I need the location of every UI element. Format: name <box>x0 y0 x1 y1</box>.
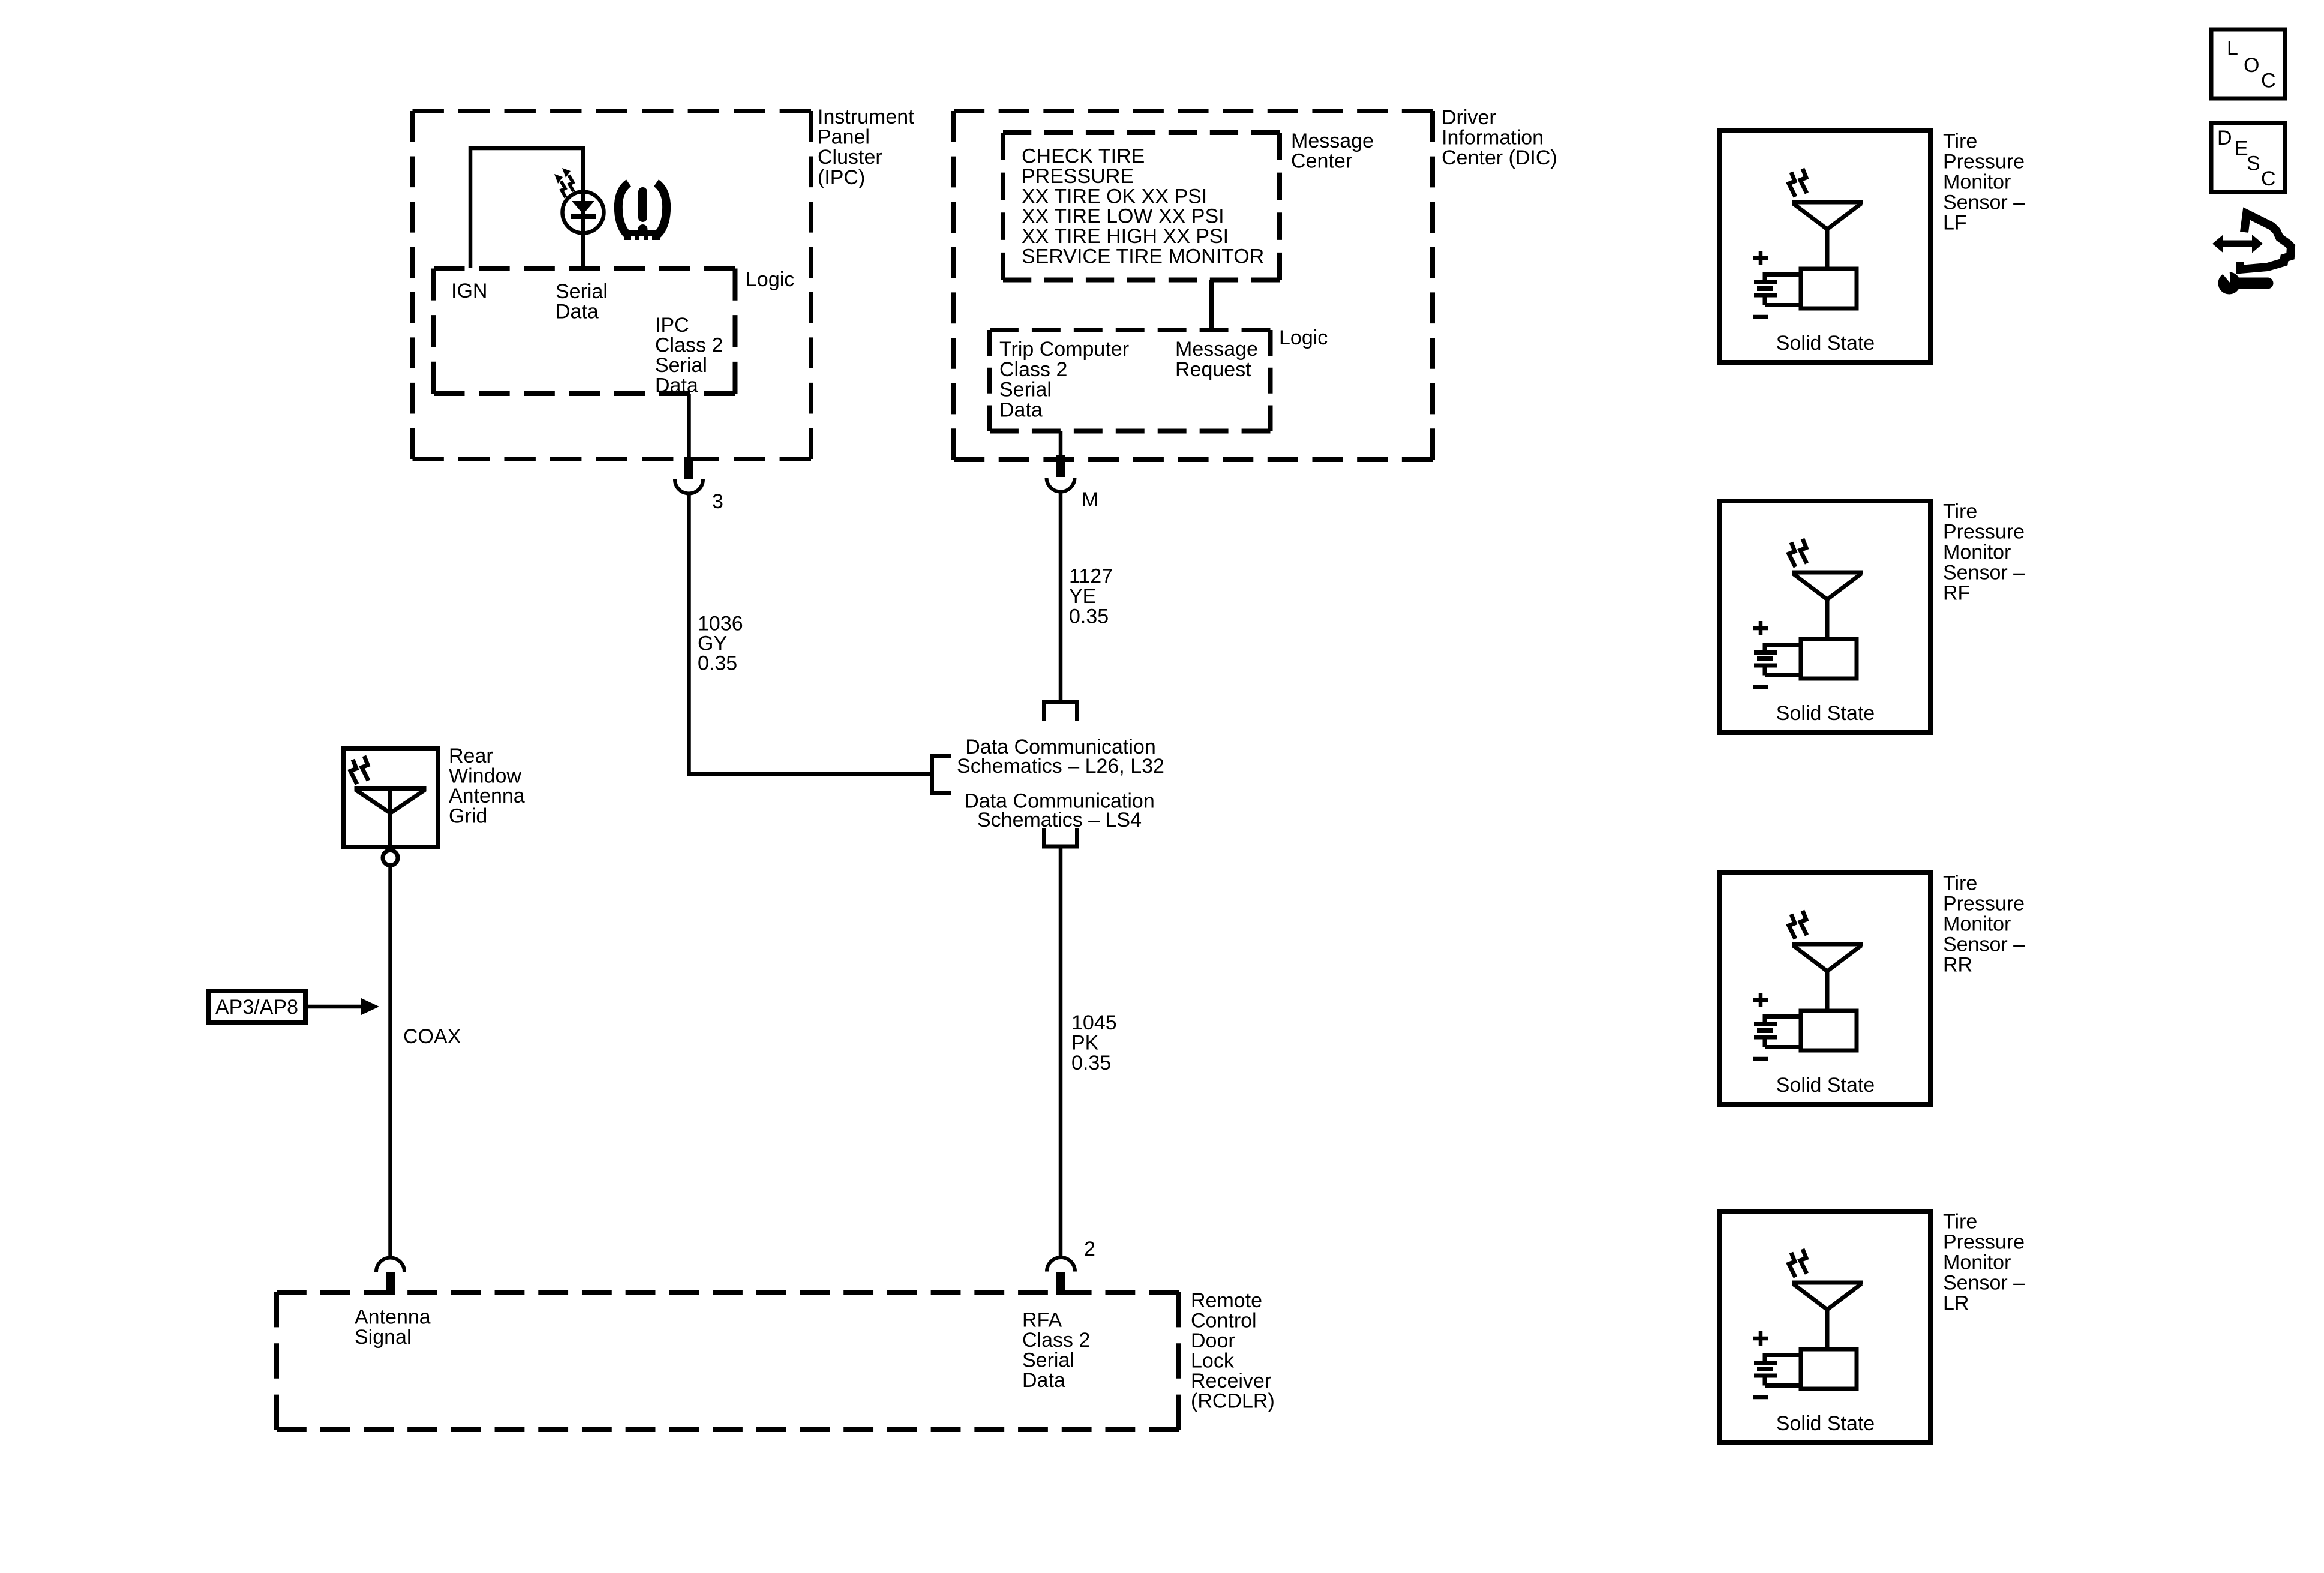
battery minus terminal (sensor LF) <box>1753 315 1768 319</box>
Tire Pressure Monitor Sensor RR box <box>1719 873 1930 1104</box>
svg-text:Solid State: Solid State <box>1776 1412 1875 1435</box>
svg-text:2: 2 <box>1084 1238 1095 1260</box>
svg-text:Instrument: Instrument <box>818 106 914 128</box>
svg-text:Serial: Serial <box>999 379 1052 401</box>
svg-text:Trip Computer: Trip Computer <box>999 338 1129 361</box>
svg-text:AP3/AP8: AP3/AP8 <box>215 996 298 1019</box>
Tire Pressure Monitor Sensor RF box <box>1719 501 1930 733</box>
node label Data Communication Schematics - L26, L32 <box>957 736 1164 778</box>
svg-text:Pressure: Pressure <box>1943 893 2025 915</box>
antenna output terminal circle <box>383 851 398 866</box>
svg-text:Tire: Tire <box>1943 500 1977 523</box>
radio wave flash 2 (sensor LF) <box>1800 169 1807 193</box>
svg-text:Antenna: Antenna <box>449 785 525 807</box>
DIC Logic dashed box <box>990 330 1271 431</box>
svg-text:XX TIRE HIGH XX PSI: XX TIRE HIGH XX PSI <box>1022 225 1229 248</box>
off-page bracket upper (to L26,L32 schematics) <box>1042 700 1079 721</box>
svg-text:Request: Request <box>1175 358 1251 381</box>
sensor RR transmitter block <box>1801 1011 1857 1050</box>
svg-text:3: 3 <box>712 490 723 513</box>
Remote Control Door Lock Receiver (RCDLR) dashed box <box>277 1292 1179 1430</box>
connector 2 female cup <box>1047 1257 1075 1272</box>
svg-text:Center: Center <box>1291 150 1352 173</box>
svg-text:PRESSURE: PRESSURE <box>1022 165 1134 188</box>
label RFA Class 2 Serial Data <box>1022 1309 1090 1392</box>
wire label 1127 YE 0.35 <box>1069 565 1113 628</box>
wire IGN-to-LED top horizontal <box>470 146 583 151</box>
indicator LED D1 (telltale lamp) <box>563 192 604 233</box>
svg-text:Monitor: Monitor <box>1943 541 2011 564</box>
radio wave flash 2 (sensor LR) <box>1800 1249 1807 1274</box>
svg-text:Pressure: Pressure <box>1943 521 2025 544</box>
Tire Pressure Monitor Sensor LR box <box>1719 1211 1930 1443</box>
label Instrument Panel Cluster (IPC) <box>818 106 914 189</box>
svg-text:M: M <box>1082 488 1098 511</box>
svg-text:IGN: IGN <box>451 280 487 302</box>
svg-text:0.35: 0.35 <box>1069 605 1109 628</box>
svg-text:RF: RF <box>1943 582 1970 605</box>
label IPC Class 2 Serial Data <box>655 314 723 397</box>
off-page bracket lower (from LS4 schematics) <box>1042 828 1079 849</box>
svg-text:Class 2: Class 2 <box>655 334 723 357</box>
radio wave flash 1 (sensor LR) <box>1789 1253 1795 1277</box>
svg-text:Logic: Logic <box>1279 326 1328 349</box>
svg-text:Pressure: Pressure <box>1943 1231 2025 1254</box>
svg-text:(RCDLR): (RCDLR) <box>1191 1390 1275 1413</box>
label Driver Information Center (DIC) <box>1442 106 1557 169</box>
wire IGN vertical <box>469 146 473 268</box>
label Tire Pressure Monitor Sensor RR <box>1943 872 2025 977</box>
LED light arrow 2 <box>562 168 574 191</box>
svg-text:XX TIRE LOW XX PSI: XX TIRE LOW XX PSI <box>1022 205 1224 228</box>
svg-text:Remote: Remote <box>1191 1289 1262 1312</box>
svg-text:Sensor –: Sensor – <box>1943 933 2025 956</box>
svg-text:Tire: Tire <box>1943 130 1977 153</box>
svg-text:1127: 1127 <box>1069 565 1113 588</box>
message center display text <box>1022 145 1264 268</box>
svg-text:Message: Message <box>1291 130 1374 152</box>
svg-text:Driver: Driver <box>1442 106 1496 129</box>
svg-text:Solid State: Solid State <box>1776 1074 1875 1097</box>
battery plus terminal (sensor RF) <box>1753 621 1768 635</box>
wire 1045 PK vertical <box>1059 846 1063 1257</box>
svg-text:0.35: 0.35 <box>1071 1052 1111 1074</box>
svg-text:SERVICE TIRE MONITOR: SERVICE TIRE MONITOR <box>1022 245 1264 268</box>
label Remote Control Door Lock Receiver (RCDLR) <box>1191 1289 1275 1413</box>
svg-text:Center (DIC): Center (DIC) <box>1442 146 1557 169</box>
svg-text:Data: Data <box>1022 1369 1065 1392</box>
svg-text:Monitor: Monitor <box>1943 1251 2011 1274</box>
svg-text:C: C <box>2261 70 2276 92</box>
label Trip Computer Class 2 Serial Data <box>999 338 1129 421</box>
antenna signal connector female cup <box>376 1258 404 1272</box>
svg-text:Serial: Serial <box>1022 1349 1074 1372</box>
radio wave flash 2 (sensor RR) <box>1800 911 1807 935</box>
battery plus terminal (sensor RR) <box>1753 993 1768 1007</box>
svg-text:S: S <box>2247 152 2260 175</box>
svg-text:LF: LF <box>1943 212 1967 235</box>
antenna symbol (sensor LF) <box>1792 202 1863 269</box>
LOC letters <box>2227 37 2276 92</box>
svg-text:Information: Information <box>1442 127 1544 149</box>
battery BT (sensor LF) <box>1754 272 1801 305</box>
radio wave flash 1 (sensor RR) <box>1789 914 1795 939</box>
svg-text:Grid: Grid <box>449 805 487 828</box>
svg-text:Monitor: Monitor <box>1943 913 2011 936</box>
svg-text:Schematics – L26, L32: Schematics – L26, L32 <box>957 755 1164 778</box>
svg-text:C: C <box>2261 167 2276 190</box>
svg-text:XX TIRE OK XX PSI: XX TIRE OK XX PSI <box>1022 185 1207 208</box>
svg-text:Sensor –: Sensor – <box>1943 1272 2025 1295</box>
svg-text:Class 2: Class 2 <box>999 358 1067 381</box>
battery minus terminal (sensor RR) <box>1753 1057 1768 1061</box>
svg-text:Class 2: Class 2 <box>1022 1329 1090 1352</box>
label Tire Pressure Monitor Sensor RF <box>1943 500 2025 605</box>
svg-text:YE: YE <box>1069 585 1096 608</box>
TPMS warning telltale icon <box>618 183 666 240</box>
svg-text:L: L <box>2227 37 2238 60</box>
svg-text:RFA: RFA <box>1022 1309 1062 1332</box>
battery plus terminal (sensor LR) <box>1753 1331 1768 1346</box>
connector 2 male blade <box>1056 1272 1065 1295</box>
svg-text:IPC: IPC <box>655 314 689 337</box>
label Tire Pressure Monitor Sensor LR <box>1943 1211 2025 1315</box>
battery BT (sensor RR) <box>1754 1014 1801 1047</box>
wire label 1036 GY 0.35 <box>698 613 743 675</box>
svg-text:Logic: Logic <box>746 268 794 291</box>
LED light arrow 1 <box>554 174 566 197</box>
wire trip computer to connector M <box>1059 431 1063 456</box>
svg-text:Sensor –: Sensor – <box>1943 562 2025 584</box>
svg-text:Sensor –: Sensor – <box>1943 191 2025 214</box>
adjust/repair icon: double arrow <box>2212 235 2263 253</box>
label Antenna Signal <box>355 1306 431 1349</box>
Instrument Panel Cluster (IPC) dashed box <box>413 111 812 459</box>
antenna symbol (sensor LR) <box>1792 1283 1863 1349</box>
sensor LR transmitter block <box>1801 1349 1857 1389</box>
battery plus terminal (sensor LF) <box>1753 251 1768 265</box>
LOC icon box <box>2211 29 2285 98</box>
radio wave flash 2 (rear antenna) <box>362 756 368 781</box>
svg-text:Monitor: Monitor <box>1943 171 2011 194</box>
AP3/AP8 reference box <box>208 991 305 1022</box>
connector M male blade <box>1056 455 1065 477</box>
Driver Information Center (DIC) dashed box <box>954 111 1433 460</box>
Tire Pressure Monitor Sensor LF box <box>1719 131 1930 362</box>
svg-text:O: O <box>2244 54 2259 77</box>
svg-text:Solid State: Solid State <box>1776 702 1875 725</box>
wire 1036 GY horizontal <box>687 772 930 776</box>
svg-text:Tire: Tire <box>1943 872 1977 895</box>
svg-text:Signal: Signal <box>355 1326 412 1349</box>
svg-text:Receiver: Receiver <box>1191 1370 1271 1392</box>
svg-text:Rear: Rear <box>449 745 493 767</box>
svg-text:Cluster: Cluster <box>818 146 882 169</box>
radio wave flash 2 (sensor RF) <box>1800 539 1807 563</box>
off-page bracket to data communication schematics <box>930 754 951 795</box>
svg-text:Window: Window <box>449 765 521 788</box>
wire message center to DIC logic <box>1209 280 1214 331</box>
svg-text:Serial: Serial <box>556 280 608 303</box>
wire IPC logic to connector 3 <box>687 394 691 457</box>
svg-text:1045: 1045 <box>1071 1011 1117 1034</box>
radio wave flash 1 (sensor LF) <box>1789 172 1795 197</box>
node label Data Communication Schematics - LS4 <box>964 790 1154 832</box>
wire serial data vertical <box>581 146 585 268</box>
battery BT (sensor LR) <box>1754 1353 1801 1386</box>
svg-text:Data: Data <box>556 301 599 323</box>
svg-text:Solid State: Solid State <box>1776 332 1875 355</box>
antenna symbol (sensor RF) <box>1792 572 1863 639</box>
label Serial Data <box>556 280 608 323</box>
adjust/repair icon: body panel outline <box>2240 214 2291 269</box>
Rear Window Antenna Grid box <box>343 749 438 847</box>
svg-text:Message: Message <box>1175 338 1258 361</box>
svg-text:Pressure: Pressure <box>1943 151 2025 173</box>
Message Center dashed box <box>1003 133 1280 280</box>
svg-text:LR: LR <box>1943 1292 1969 1315</box>
svg-text:PK: PK <box>1071 1032 1099 1055</box>
radio wave flash 1 (sensor RF) <box>1789 542 1795 567</box>
svg-text:Panel: Panel <box>818 126 870 149</box>
connector 3 male blade <box>684 457 693 479</box>
svg-text:RR: RR <box>1943 954 1972 977</box>
antenna symbol (sensor RR) <box>1792 944 1863 1011</box>
label Tire Pressure Monitor Sensor LF <box>1943 130 2025 235</box>
svg-text:Control: Control <box>1191 1310 1257 1332</box>
sensor RF transmitter block <box>1801 639 1857 679</box>
label Message Request <box>1175 338 1258 381</box>
svg-text:(IPC): (IPC) <box>818 166 865 189</box>
arrow AP3/AP8 to COAX <box>308 998 379 1016</box>
label Message Center <box>1291 130 1374 173</box>
svg-text:Schematics – LS4: Schematics – LS4 <box>977 809 1142 831</box>
IPC Logic dashed box <box>434 269 735 394</box>
radio wave flash 1 (rear antenna) <box>350 760 357 784</box>
svg-text:Data: Data <box>999 398 1043 421</box>
svg-text:Lock: Lock <box>1191 1350 1235 1373</box>
connector 3 female cup <box>675 479 703 494</box>
wire 1127 YE vertical <box>1059 492 1063 703</box>
antenna symbol (rear window grid) <box>355 789 427 845</box>
svg-text:Data: Data <box>655 374 698 397</box>
svg-text:Antenna: Antenna <box>355 1306 431 1329</box>
svg-text:Door: Door <box>1191 1329 1235 1352</box>
antenna signal connector male blade <box>386 1272 395 1295</box>
battery minus terminal (sensor LR) <box>1753 1395 1768 1400</box>
adjust/repair icon: wrench <box>2217 266 2268 295</box>
label Rear Window Antenna Grid <box>449 745 525 828</box>
svg-text:COAX: COAX <box>403 1025 461 1048</box>
DESC letters <box>2217 127 2276 190</box>
connector M female cup <box>1047 478 1075 492</box>
svg-text:D: D <box>2217 127 2232 149</box>
wire label 1045 PK 0.35 <box>1071 1011 1117 1074</box>
svg-text:Tire: Tire <box>1943 1211 1977 1233</box>
svg-text:CHECK TIRE: CHECK TIRE <box>1022 145 1145 168</box>
sensor LF transmitter block <box>1801 269 1857 308</box>
battery BT (sensor RF) <box>1754 643 1801 676</box>
DESC icon box <box>2211 123 2285 192</box>
battery minus terminal (sensor RF) <box>1753 685 1768 689</box>
wire 1036 GY vertical <box>687 493 691 774</box>
svg-text:Serial: Serial <box>655 354 707 377</box>
svg-text:0.35: 0.35 <box>698 652 737 675</box>
wire COAX <box>388 866 392 1258</box>
